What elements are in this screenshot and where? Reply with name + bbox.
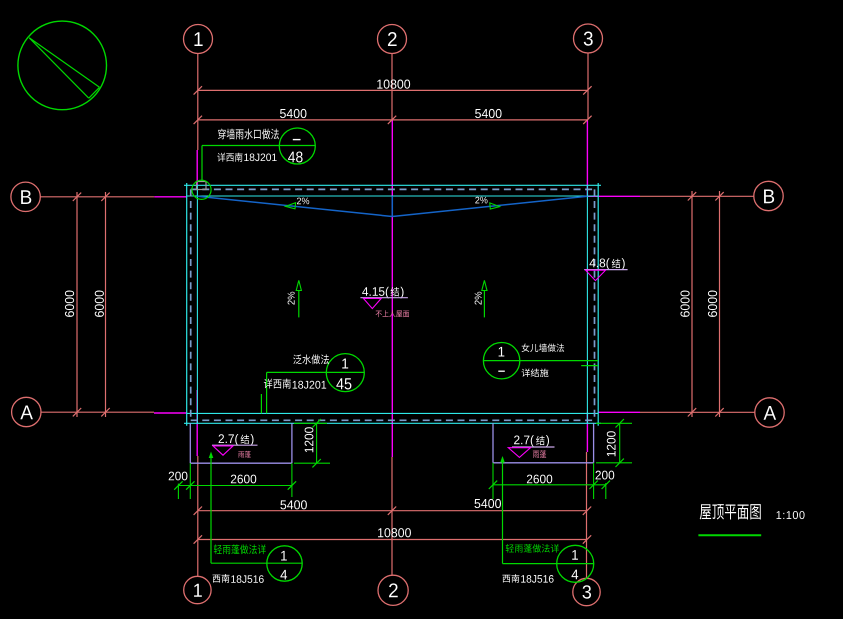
dim text 5400 top-left <box>280 109 306 118</box>
roof outer wall top <box>184 184 601 186</box>
rain outlet circle <box>192 180 211 199</box>
label 泛水做法 <box>293 354 329 364</box>
dimension line 5400 bottom <box>198 510 587 512</box>
label 18J516 left <box>231 575 263 583</box>
elevation 2.7 left <box>219 434 239 446</box>
detail ref 1 <box>499 347 505 357</box>
elevation 4.8 <box>589 258 609 270</box>
axis circle B right <box>754 181 783 210</box>
detail ref 4 <box>280 570 287 580</box>
dim extension 6000 left inner <box>105 192 107 417</box>
canopy left 1200 dim <box>294 422 327 424</box>
rain outlet symbol at corner <box>197 182 207 190</box>
label 18J516 right <box>521 575 553 583</box>
dim text 5400 bottom-right <box>474 499 500 508</box>
parapet dashed centerline right <box>594 189 596 420</box>
axis 1 vertical line <box>197 54 199 151</box>
roof inner wall left <box>196 185 198 423</box>
label 不上人屋面 <box>376 310 410 317</box>
dim text 1200 right <box>607 431 616 456</box>
dim text 10800 top <box>377 80 410 89</box>
axis circle 2 bottom <box>378 575 408 605</box>
axis circle 3 top <box>574 24 603 53</box>
axis circle A right <box>755 398 784 427</box>
leader 泛水做法 <box>267 371 365 373</box>
label 雨蓬 left <box>238 451 250 458</box>
leader 女儿墙做法 <box>483 360 598 362</box>
slope arrow mid-right <box>483 290 485 317</box>
roof inner wall top <box>187 195 599 197</box>
axis B line right <box>587 195 640 197</box>
parapet dashed centerline top <box>191 188 595 190</box>
roof outer wall bottom <box>184 422 601 424</box>
roof outer wall right <box>597 183 599 426</box>
valley vertical at axis 2 <box>391 196 393 216</box>
wedge lines inside circle <box>29 38 89 98</box>
title 屋顶平面图 <box>700 504 761 519</box>
dimension line 10800 bottom <box>198 539 587 541</box>
label 雨蓬 right <box>533 450 546 458</box>
label 详西南18J201 mid <box>264 379 291 389</box>
detail ref dash <box>498 370 505 372</box>
axis 2 vertical line <box>391 54 393 120</box>
dim text 6000 right outer <box>708 291 717 317</box>
detail circle 1/4 right <box>557 545 594 582</box>
dim text 6000 right inner <box>680 291 689 317</box>
dim extension 6000 left outer <box>76 192 78 417</box>
label 西南18J516 right <box>502 574 519 582</box>
dim text 200 left <box>169 472 188 481</box>
elevation 4.15 <box>362 287 389 299</box>
canopy right outline <box>492 423 494 463</box>
dimension line 5400 top <box>198 119 588 121</box>
dim text 2600 left <box>231 475 256 484</box>
axis circle 1 bottom <box>184 576 211 603</box>
title scale 1:100 <box>777 511 805 519</box>
detail ref 4 <box>572 570 579 580</box>
slope arrow top-right <box>490 203 500 209</box>
title underline <box>698 534 761 536</box>
elevation triangle 4.15 <box>363 298 381 308</box>
detail ref dash <box>293 139 301 141</box>
axis circle 2 top <box>378 25 407 54</box>
dim text 200 right <box>595 471 614 480</box>
detail ref 45 <box>336 378 351 389</box>
slope 2% top-right <box>475 197 487 204</box>
dim extension 6000 right inner <box>691 191 693 417</box>
slope 2% top-left <box>297 198 309 205</box>
leader line rain outlet <box>202 145 315 147</box>
slope 2% mid-left <box>288 292 295 305</box>
label 轻雨蓬做法详 right <box>506 544 559 553</box>
slope 2% mid-right <box>475 292 482 305</box>
canopy left outline <box>189 423 191 463</box>
dim extension 6000 right outer <box>719 191 721 417</box>
north/detail symbol circle top-left <box>18 21 107 110</box>
elevation underline 4.8 <box>584 269 627 271</box>
leader canopy left <box>210 456 212 563</box>
label 18J201 top <box>244 153 276 161</box>
slope arrow top-left <box>286 203 296 209</box>
elevation underline 4.15 <box>360 297 408 299</box>
valley line left <box>198 196 393 216</box>
roof inner wall right <box>586 185 588 423</box>
detail ref 1 <box>342 359 348 369</box>
detail circle -/48 <box>279 128 315 164</box>
elevation 2.7 right <box>514 435 534 447</box>
label 轻雨蓬做法详 left <box>214 544 266 554</box>
valley line right <box>392 196 587 216</box>
slope arrow mid-left <box>298 290 300 317</box>
dimension line 10800 top <box>198 89 588 91</box>
detail ref 48 <box>288 151 303 162</box>
elevation triangle 4.8 <box>586 270 606 280</box>
canopy right 1200 dim <box>596 422 632 424</box>
dim text 5400 top-right <box>475 109 501 118</box>
dim text 1200 left <box>305 427 314 452</box>
roof inner wall bottom <box>187 412 599 414</box>
parapet dashed centerline bottom <box>191 419 595 421</box>
leader canopy right <box>502 458 504 564</box>
dim text 2600 right <box>527 475 552 484</box>
label 18J201 mid <box>293 381 327 389</box>
label 女儿墙做法 <box>522 343 565 352</box>
axis circle A left <box>12 397 41 426</box>
axis A line left <box>41 411 154 413</box>
dim line 200+2600 left canopy <box>178 485 292 487</box>
canopy right dim extensions <box>492 463 494 499</box>
dim text 6000 left outer <box>65 291 74 317</box>
dim text 5400 bottom-left <box>280 500 306 509</box>
detail ref 1 <box>281 551 287 561</box>
detail circle 1/4 left <box>267 546 302 581</box>
label 详结施 <box>522 369 549 377</box>
label 西南18J516 left <box>213 574 230 583</box>
parapet dashed centerline left <box>190 189 192 420</box>
axis circle 1 top <box>184 25 213 54</box>
detail ref 1 <box>572 550 578 560</box>
axis B line left <box>40 196 154 198</box>
label 详西南18J201 top <box>217 153 242 162</box>
detail circle 1/- parapet <box>483 343 519 379</box>
axis circle 3 bottom <box>573 578 600 605</box>
roof outer wall left <box>186 183 188 426</box>
dim text 10800 bottom <box>378 528 411 537</box>
detail circle 1/45 <box>326 354 364 392</box>
dim text 6000 left inner <box>95 291 104 317</box>
canopy left dim extensions <box>189 463 191 499</box>
axis 3 vertical line <box>587 53 589 120</box>
label 穿墙雨水口做法 <box>218 129 279 140</box>
dim line 2600+200 right canopy <box>493 484 606 486</box>
axis A line right <box>598 411 640 413</box>
axis circle B left <box>11 182 40 211</box>
